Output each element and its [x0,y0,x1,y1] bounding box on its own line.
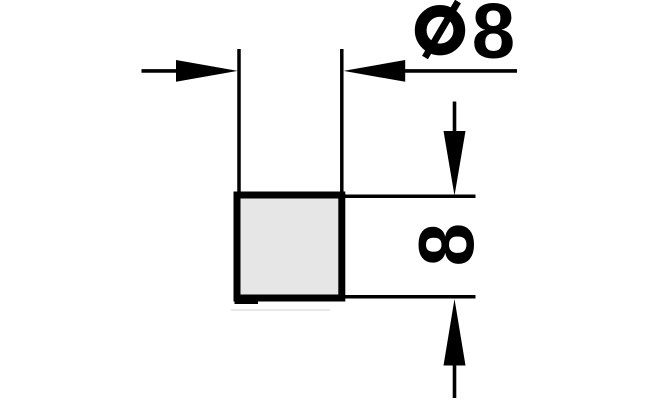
label Ø8: diameter symbol circle [421,11,460,50]
part body (side view of Ø8 x 8 pin) [237,195,342,298]
svg-text:8: 8 [402,223,490,266]
dimension 8 top tail line [453,102,457,133]
extension line top-right of height dimension [342,195,476,199]
extension line right of diameter dimension [340,49,344,195]
dimension Ø8 left arrowhead [176,60,238,82]
dimension Ø8 right tail line [404,69,518,73]
dimension 8 bottom arrowhead [444,299,466,366]
part bottom edge overhang [235,298,259,305]
dimension Ø8 right arrowhead [344,60,406,82]
part bottom shadow line [231,309,330,311]
label Ø8: diameter symbol slash [425,2,458,58]
extension line left of diameter dimension [237,49,241,195]
dimension 8 top arrowhead [444,131,466,196]
extension line bottom-right of height dimension [342,295,476,299]
svg-text:8: 8 [472,0,515,75]
dimension 8 bottom tail line [453,364,457,398]
dimension Ø8 left tail line [142,69,179,73]
